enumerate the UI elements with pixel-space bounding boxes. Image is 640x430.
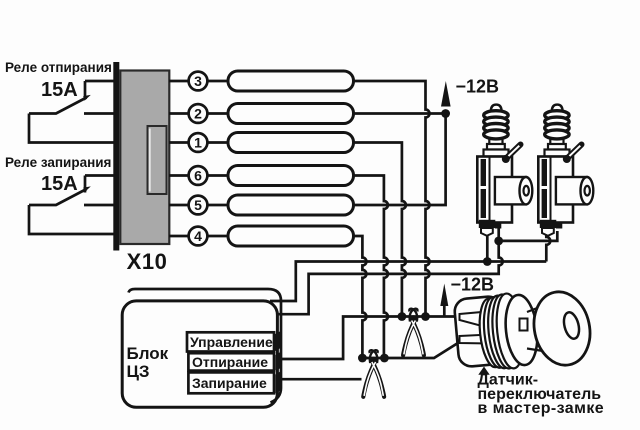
wire node A up to actuator M1 right terminal bbox=[497, 228, 500, 241]
crimp pliers (unlock splice) bbox=[403, 309, 424, 356]
svg-text:Реле запирания: Реле запирания bbox=[5, 155, 111, 170]
splice node pin6/lock bbox=[380, 354, 389, 363]
svg-text:в мастер-замке: в мастер-замке bbox=[478, 400, 605, 417]
svg-text:15А: 15А bbox=[41, 79, 78, 101]
capsule splice pin 6 bbox=[228, 166, 354, 186]
svg-text:ЦЗ: ЦЗ bbox=[127, 362, 150, 381]
central lock block body bbox=[122, 301, 277, 407]
pin 5 bbox=[189, 196, 208, 215]
wire pin 4 to lock splice (vertical with hops) bbox=[354, 236, 367, 358]
pin 4 wire bbox=[169, 235, 228, 238]
capsule splice pin 2 bbox=[228, 104, 354, 124]
pin 3 wire bbox=[169, 80, 228, 83]
junction node pin2/pin5/-12V bbox=[441, 109, 450, 118]
master lock cylinder rings bbox=[476, 292, 526, 371]
actuator lever bbox=[507, 145, 521, 159]
actuator spring coils bbox=[484, 111, 508, 120]
capsule splice pin 4 bbox=[228, 226, 354, 246]
svg-text:Управление: Управление bbox=[190, 334, 273, 350]
pin 5 wire bbox=[169, 204, 228, 207]
key slot bbox=[520, 319, 528, 331]
connector X10 body bbox=[120, 71, 169, 245]
pin 2 bbox=[189, 104, 208, 123]
relay K1 unlock contact bbox=[29, 81, 114, 143]
connector X10 keyway bbox=[148, 126, 167, 194]
master lock cylinder face bbox=[502, 293, 540, 366]
actuator foot bbox=[479, 220, 496, 228]
svg-text:−12В: −12В bbox=[456, 77, 500, 97]
wire: block unlock output to master lock (with -12V tap) bbox=[276, 317, 460, 360]
svg-text:Отпирание: Отпирание bbox=[192, 354, 268, 370]
pin 6 bbox=[189, 166, 208, 185]
block terminal row Управление bbox=[187, 332, 274, 351]
block terminal row Отпирание bbox=[188, 353, 274, 370]
pin 2 wire bbox=[169, 112, 228, 115]
block rows 3D right ends bbox=[275, 331, 281, 352]
key head hole bbox=[561, 311, 581, 341]
splice node pin3/unlock bbox=[421, 312, 430, 321]
-12V supply arrow (top) bbox=[441, 81, 451, 107]
master lock cylinder back cap bbox=[454, 296, 507, 368]
wire actuator M2 left terminal to line 1 (hop over node A wire) bbox=[546, 231, 550, 262]
central lock block (Блок ЦЗ) 3D offset outline bbox=[129, 289, 282, 403]
wire node B up to actuator M1 left terminal bbox=[486, 229, 489, 262]
svg-text:2: 2 bbox=[194, 106, 202, 122]
svg-text:1: 1 bbox=[194, 135, 202, 151]
splice node pin4/lock bbox=[358, 354, 367, 363]
svg-text:6: 6 bbox=[194, 168, 202, 184]
capsule splice pin 5 bbox=[228, 195, 354, 215]
-12V supply arrow (bottom) bbox=[440, 284, 448, 307]
svg-text:5: 5 bbox=[194, 197, 202, 213]
actuator rack strip bbox=[481, 159, 486, 186]
wire: lock splice to master lock lower terminal bbox=[362, 342, 459, 358]
crimp pliers (lock splice) bbox=[363, 350, 384, 397]
wire pin 1 to unlock splice (vertical with hops) bbox=[354, 143, 406, 317]
actuator M1 bbox=[477, 105, 532, 236]
label pointer to master lock bbox=[478, 367, 489, 375]
key blade bbox=[527, 307, 543, 352]
pin 1 wire bbox=[169, 141, 228, 144]
actuator dome cap bbox=[491, 105, 502, 112]
block terminal row Запирание bbox=[188, 372, 274, 393]
node A actuator control junction bbox=[494, 237, 503, 246]
master lock upper terminal bbox=[460, 312, 488, 328]
node B actuator common junction bbox=[483, 257, 492, 266]
actuator shoulder bbox=[484, 150, 509, 157]
pin 6 wire bbox=[169, 174, 228, 177]
wire pin 3 to unlock splice (vertical with hops) bbox=[354, 81, 430, 317]
splice node pin1/unlock bbox=[398, 312, 407, 321]
connector X10 front plate bar bbox=[113, 62, 119, 251]
wire: block control output to actuators (line 2 with hop over line 1) bbox=[276, 241, 503, 314]
svg-text:Блок: Блок bbox=[127, 344, 169, 363]
wire: block lock output to splice bbox=[276, 378, 362, 381]
svg-text:Х10: Х10 bbox=[127, 249, 168, 274]
pin 4 bbox=[189, 227, 208, 246]
svg-text:−12В: −12В bbox=[451, 275, 495, 295]
actuator motor cylinder bbox=[495, 177, 526, 204]
svg-text:Реле отпирания: Реле отпирания bbox=[5, 60, 112, 75]
capsule splice pin 1 bbox=[228, 133, 354, 153]
wire pin 5 to -12V node bbox=[354, 114, 446, 206]
svg-text:Запирание: Запирание bbox=[192, 375, 267, 391]
relay K2 lock contact bbox=[29, 176, 114, 235]
actuator body bbox=[477, 157, 512, 223]
actuator neck bbox=[489, 139, 502, 145]
master lock lower terminal bbox=[460, 335, 490, 344]
key head bbox=[527, 287, 596, 371]
capsule splice pin 3 bbox=[228, 71, 354, 91]
wire: block output to actuators common (line 1) bbox=[270, 262, 546, 302]
svg-text:4: 4 bbox=[194, 228, 202, 244]
wire pin 2 to -12V node bbox=[354, 112, 446, 115]
svg-text:15А: 15А bbox=[41, 173, 78, 195]
wire pin 6 to lock splice (vertical with hops) bbox=[354, 176, 388, 359]
actuator M2 bbox=[538, 105, 593, 236]
pin 1 bbox=[189, 133, 208, 152]
pin 3 bbox=[189, 72, 208, 91]
svg-text:3: 3 bbox=[194, 73, 202, 89]
wire node A to actuator M2 right terminal bbox=[499, 231, 558, 241]
